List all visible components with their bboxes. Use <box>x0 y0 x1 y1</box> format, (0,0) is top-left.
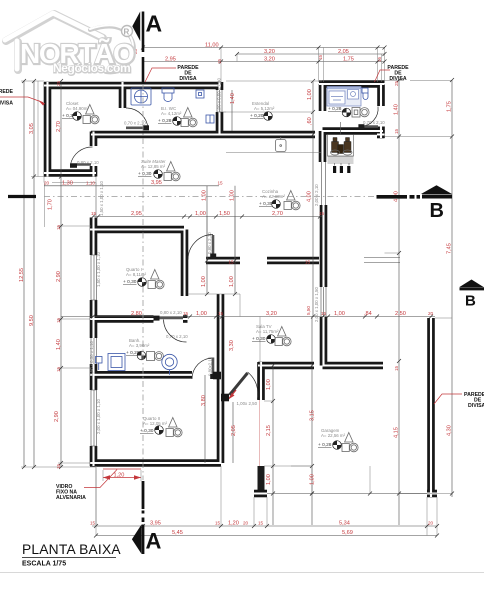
svg-text:2,15: 2,15 <box>266 425 272 436</box>
svg-text:3,95: 3,95 <box>150 521 161 527</box>
DIM_LAYER <box>19 43 453 537</box>
logo registered <box>122 26 133 37</box>
furniture cozinha <box>284 191 300 210</box>
dim ticks y316 <box>91 315 433 319</box>
churrasqueira jugs <box>332 138 352 154</box>
dim estendal tickline <box>226 81 322 112</box>
door arc closet <box>71 147 93 165</box>
svg-text:4,15: 4,15 <box>394 427 400 438</box>
svg-text:1,00: 1,00 <box>195 211 206 217</box>
dim vidro drop <box>96 470 141 525</box>
svg-text:B: B <box>430 200 444 222</box>
svg-text:+ 0,30: + 0,30 <box>138 171 152 177</box>
svg-text:0,70 x 2,10: 0,70 x 2,10 <box>363 120 385 125</box>
door arc biwc <box>126 108 148 130</box>
kitchen counter line <box>226 151 321 153</box>
level marker biwc <box>173 117 182 126</box>
wall band suite-top / estendal-bottom <box>91 131 315 139</box>
wall white cores <box>44 82 437 497</box>
svg-text:1,50 x 1,00 x 1,10: 1,50 x 1,00 x 1,10 <box>99 181 104 216</box>
svg-text:5,45: 5,45 <box>172 530 183 536</box>
leader vidro fixo <box>84 470 117 488</box>
dim row y216 suite/cozinha <box>94 216 323 218</box>
svg-text:A= 22,56 m²: A= 22,56 m² <box>321 433 346 438</box>
svg-text:B: B <box>465 293 476 310</box>
svg-text:2,90: 2,90 <box>54 411 60 422</box>
svg-text:1,40: 1,40 <box>56 339 62 350</box>
svg-text:15: 15 <box>229 260 235 265</box>
svg-text:1,00: 1,00 <box>334 311 345 317</box>
section line A dashed through plan <box>142 84 144 480</box>
wall quarto2 bottom exterior <box>90 459 221 467</box>
door leaf sala diagonal <box>230 373 248 395</box>
dim kitchen x313 lower <box>312 135 314 317</box>
arrow parede left <box>38 100 45 106</box>
section marker A bottom flag <box>132 525 142 554</box>
svg-text:1,00: 1,00 <box>202 190 208 201</box>
logo house outline <box>5 13 102 69</box>
wall sala/garagem top <box>258 362 314 370</box>
dim line top row3 <box>143 61 385 63</box>
svg-text:1,00: 1,00 <box>196 311 207 317</box>
svg-text:ESCALA 1/75: ESCALA 1/75 <box>22 561 66 568</box>
svg-text:DIVISA: DIVISA <box>179 76 197 82</box>
wall kitchen/sala left upper <box>319 131 327 162</box>
furniture biwc <box>181 108 197 127</box>
window quarto1 left <box>91 255 97 300</box>
svg-text:2,90: 2,90 <box>56 271 62 282</box>
fixture washer lavanderia <box>327 87 361 107</box>
wall top exterior (closet/bath block) <box>44 82 221 90</box>
level marker closet <box>73 112 82 121</box>
svg-text:PLANTA BAIXA: PLANTA BAIXA <box>22 542 121 557</box>
svg-text:0,80 x 2,10: 0,80 x 2,10 <box>160 310 182 315</box>
fixture basin banh2 <box>96 357 103 371</box>
leader parede right lower <box>434 394 462 404</box>
wall quarto1 bottom / banheiro top left part <box>90 315 154 323</box>
svg-text:15: 15 <box>56 366 61 372</box>
dim tick lines left <box>21 81 96 467</box>
fixture tank top lavanderia <box>327 87 361 89</box>
svg-text:+ 0,30: + 0,30 <box>140 428 154 434</box>
door leaf biwc <box>126 127 148 130</box>
dim vidro arrows <box>103 475 141 479</box>
wall laundry left <box>319 84 327 111</box>
wall garagem left pillar <box>258 466 265 497</box>
dim verticals y216 drop <box>96 62 235 261</box>
svg-text:15: 15 <box>394 128 399 134</box>
svg-text:+ 0,28: + 0,28 <box>328 106 342 112</box>
svg-text:1,50: 1,50 <box>219 211 230 217</box>
dim vidro 1,20 line <box>103 477 141 479</box>
window sala west wall <box>219 112 326 317</box>
suite wardrobe small <box>206 115 214 123</box>
dim corridor ticks <box>205 259 237 297</box>
svg-text:5,34: 5,34 <box>339 521 350 527</box>
dim estendal x232 <box>231 90 233 131</box>
section marker B2 roof <box>460 280 484 288</box>
dim quarto2 x205 <box>204 375 206 463</box>
fixture kitchen sink <box>276 137 287 152</box>
section marker A top flag <box>132 12 140 42</box>
dim ticks bottom <box>94 492 439 538</box>
svg-text:3,20: 3,20 <box>264 49 275 55</box>
svg-text:15: 15 <box>318 54 323 60</box>
dim line right col x399 <box>398 80 400 525</box>
door leaf closet <box>71 163 92 166</box>
svg-text:A= 11,75m²: A= 11,75m² <box>256 329 279 334</box>
svg-text:1,75: 1,75 <box>447 101 453 112</box>
level marker suite <box>154 170 163 179</box>
svg-text:7,45: 7,45 <box>447 243 453 254</box>
dim extenders top <box>143 43 385 84</box>
wall quarto1 left exterior upper <box>90 218 98 256</box>
dim estendal ticks <box>311 79 315 137</box>
svg-text:9,50: 9,50 <box>29 315 35 326</box>
dim line left col x34 <box>33 81 35 467</box>
svg-text:A= 12,85 m²: A= 12,85 m² <box>141 164 166 169</box>
wall band kitchen top <box>323 127 384 135</box>
svg-text:DIVISA: DIVISA <box>389 76 407 82</box>
svg-text:12,55: 12,55 <box>19 268 25 282</box>
dim garagem ticks <box>271 364 314 496</box>
svg-text:15: 15 <box>218 181 224 186</box>
dim estendal x313 <box>312 81 314 135</box>
door leaf lavanderia <box>360 125 378 128</box>
wall laundry right / exterior <box>377 84 385 138</box>
svg-text:1,00: 1,00 <box>230 190 236 201</box>
dim line top row1 <box>143 47 385 49</box>
svg-text:1,20: 1,20 <box>114 473 125 479</box>
svg-text:PAREDE: PAREDE <box>0 89 14 95</box>
svg-text:20: 20 <box>243 521 249 526</box>
svg-text:A= 5,12m²: A= 5,12m² <box>254 106 275 111</box>
svg-text:A= 8,11m²: A= 8,11m² <box>126 272 147 277</box>
wall closet/suite (lower part) <box>90 166 98 177</box>
svg-text:3,80: 3,80 <box>201 395 207 406</box>
svg-text:15: 15 <box>319 211 325 216</box>
svg-text:1,40: 1,40 <box>394 104 400 115</box>
level marker quarto1 <box>138 278 147 287</box>
level marker cozinha <box>272 200 281 209</box>
svg-text:15: 15 <box>91 211 97 216</box>
wall closet/suite (upper part) <box>90 132 98 147</box>
dim quarto2 x233 <box>232 402 234 463</box>
door arc quarto2 <box>192 358 213 379</box>
section line B left outside <box>8 195 36 198</box>
wall stub quarto2 door right <box>213 372 221 380</box>
svg-text:1,00: 1,00 <box>266 474 272 485</box>
wall bathroom right / estendal left <box>216 82 224 135</box>
fixture toilet biwc <box>162 88 174 101</box>
fixture sink banh2 <box>162 354 177 374</box>
svg-text:15: 15 <box>56 317 61 323</box>
svg-text:1,00x 2,50: 1,00x 2,50 <box>237 401 258 406</box>
svg-text:A: A <box>146 529 162 554</box>
svg-text:15: 15 <box>56 224 61 230</box>
svg-text:15: 15 <box>56 463 61 469</box>
svg-text:+ 0,28: + 0,28 <box>158 118 172 124</box>
wall sala right upper <box>257 362 265 400</box>
wall quarto2 bottom left stub at garage <box>254 490 267 498</box>
section marker B right roof <box>421 185 452 194</box>
wall garagem top right segment <box>323 362 384 370</box>
dim row bottom y494 <box>267 493 427 495</box>
red tick sala door <box>229 390 237 399</box>
svg-text:2,50: 2,50 <box>395 311 406 317</box>
dim corridor x235 <box>234 186 236 294</box>
svg-text:20: 20 <box>428 311 434 316</box>
wall closet/bathroom divider <box>119 82 127 108</box>
svg-text:+ 0,30: + 0,30 <box>252 336 266 342</box>
churrasqueira feet <box>333 166 350 173</box>
svg-text:20: 20 <box>428 521 434 526</box>
dim line left col x24 <box>23 81 25 467</box>
svg-text:1,00: 1,00 <box>307 89 313 100</box>
wall quarto1 right <box>181 230 189 297</box>
svg-text:15: 15 <box>218 311 224 316</box>
svg-text:2,80: 2,80 <box>131 311 142 317</box>
furniture quarto2 <box>166 418 182 437</box>
fixture shower banh2 <box>108 354 125 371</box>
svg-text:15: 15 <box>321 311 327 316</box>
svg-text:2,95: 2,95 <box>165 57 176 63</box>
svg-text:A= 4,12m²: A= 4,12m² <box>161 111 182 116</box>
wall sala left / quarto2 right <box>217 294 225 463</box>
svg-text:+ 0,30: + 0,30 <box>259 201 273 207</box>
window bancada patio <box>364 258 400 263</box>
svg-text:A= 12,05 m²: A= 12,05 m² <box>143 421 168 426</box>
svg-text:2,00 x 2,10: 2,00 x 2,10 <box>314 184 319 206</box>
door leaf banh2 <box>156 317 183 320</box>
fixture sink biwc <box>196 90 204 98</box>
fixture small wc lavanderia <box>362 88 368 100</box>
svg-text:1,70: 1,70 <box>48 199 54 210</box>
wall quarto1 left exterior lower <box>90 300 98 322</box>
window quarto2 left <box>91 390 97 446</box>
svg-text:2,70: 2,70 <box>56 121 62 132</box>
dim row y316 sala <box>61 316 435 318</box>
logo house shadow <box>6 14 103 70</box>
svg-text:+ 0,20: + 0,20 <box>250 113 264 119</box>
svg-text:,60: ,60 <box>307 117 313 125</box>
svg-text:Negócios.com: Negócios.com <box>53 61 130 75</box>
door arc sala <box>248 372 258 399</box>
svg-text:3,95: 3,95 <box>151 180 162 186</box>
svg-text:1,00: 1,00 <box>266 379 272 390</box>
svg-text:A= 04,90m²: A= 04,90m² <box>66 106 89 111</box>
svg-text:15: 15 <box>215 521 221 526</box>
svg-text:DIVISA: DIVISA <box>0 101 13 107</box>
svg-text:15: 15 <box>217 58 222 64</box>
wall closet bottom <box>44 169 96 177</box>
wall garagem bottom right stub <box>427 490 437 498</box>
furniture closet <box>83 105 99 124</box>
wall laundry top <box>319 80 385 88</box>
level marker garagem <box>333 441 342 450</box>
dim ticks right <box>397 78 454 496</box>
svg-text:1,00: 1,00 <box>310 474 316 485</box>
svg-text:2,05: 2,05 <box>231 425 237 436</box>
dim tick lines right <box>385 81 453 494</box>
logo watermark <box>5 13 135 75</box>
svg-text:1,20: 1,20 <box>228 521 239 527</box>
svg-text:1,50 x 1,00 x 1,10: 1,50 x 1,00 x 1,10 <box>96 252 101 287</box>
svg-text:1,10: 1,10 <box>86 181 95 186</box>
leader parede top mid <box>145 68 176 82</box>
churrasqueira jug bases <box>331 150 353 155</box>
wall quarto2 left exterior lower <box>90 446 98 466</box>
svg-text:15: 15 <box>183 311 189 316</box>
windows (thin double lines in wall gaps) <box>91 90 400 525</box>
svg-text:3,20: 3,20 <box>266 311 277 317</box>
svg-text:DIVISA: DIVISA <box>468 403 484 409</box>
logo swoosh <box>90 26 134 72</box>
svg-text:1,40: 1,40 <box>230 93 236 104</box>
level marker lavanderia <box>342 108 351 117</box>
churrasqueira frame <box>328 122 354 166</box>
dim line right col x452 <box>451 80 453 497</box>
dim row bottom y525 <box>92 525 437 527</box>
level marker banh <box>137 351 146 360</box>
door arc quarto1 <box>188 235 213 260</box>
dim ticks top <box>141 46 387 64</box>
wall corridor top stub <box>206 257 240 265</box>
open edge below A wall <box>95 466 97 525</box>
furniture banh <box>147 352 164 361</box>
title underline <box>22 557 116 559</box>
vidro red underline <box>103 468 141 470</box>
wall cozinha/patio stub <box>267 257 319 265</box>
dim line top row2 <box>237 53 385 55</box>
dim garagem x273 <box>272 366 274 526</box>
level marker estendal <box>264 112 273 121</box>
wall quarto1 top <box>90 226 184 234</box>
wall quarto2 left exterior upper <box>90 322 98 390</box>
page separator line <box>0 572 484 574</box>
window biwc right wall <box>217 90 222 112</box>
svg-text:A: A <box>146 11 163 37</box>
svg-text:,84: ,84 <box>364 311 372 317</box>
svg-text:5,50: 5,50 <box>306 306 311 315</box>
dim row under closet y185 <box>44 185 219 187</box>
svg-text:4,30: 4,30 <box>447 425 453 436</box>
dim garagem ticklines <box>240 294 312 466</box>
leader parede top right <box>375 70 391 82</box>
dim corridor x207 <box>206 186 208 294</box>
section marker B base <box>422 195 452 199</box>
svg-text:3,15: 3,15 <box>310 410 316 421</box>
svg-text:0,60 x 0,50 x 1,10: 0,60 x 0,50 x 1,10 <box>89 341 94 376</box>
svg-text:1,75: 1,75 <box>343 57 354 63</box>
dim ticks y216 <box>91 215 322 219</box>
svg-text:2,00 x 1,00 x 1,10: 2,00 x 1,00 x 1,10 <box>96 399 101 434</box>
wall left exterior <box>44 82 52 177</box>
svg-text:15: 15 <box>90 521 96 526</box>
wall garagem right (parede divisa) <box>427 318 435 497</box>
furniture suite <box>164 162 180 181</box>
svg-text:15: 15 <box>305 260 311 265</box>
furniture sala <box>275 327 291 346</box>
wall banheiro top right stub <box>183 315 188 323</box>
dim line left col x61 <box>60 81 62 467</box>
svg-text:3,30: 3,30 <box>229 340 235 351</box>
open edge garagem left <box>259 400 261 466</box>
dim bottom extenders <box>96 466 437 536</box>
svg-text:R: R <box>124 28 130 37</box>
dim ticks left <box>22 79 63 469</box>
svg-text:2,05: 2,05 <box>338 49 349 55</box>
door arc banh2 <box>164 320 187 343</box>
svg-text:5,69: 5,69 <box>342 530 353 536</box>
door leaf quarto2 <box>212 358 215 379</box>
section marker B2 base <box>460 287 484 290</box>
svg-text:2,00 x 1,00 x 1,50: 2,00 x 1,00 x 1,50 <box>314 287 319 322</box>
section line B dashed through plan <box>44 196 378 198</box>
section line A top <box>142 12 145 85</box>
leader parede left <box>0 97 43 103</box>
window banheiro left <box>91 338 97 364</box>
svg-text:2,70: 2,70 <box>272 211 283 217</box>
svg-text:3,20: 3,20 <box>264 57 275 63</box>
level marker quarto2 <box>155 426 164 435</box>
section line B right outside <box>377 195 421 199</box>
svg-text:ALVENARIA: ALVENARIA <box>56 495 86 501</box>
wall stub sala door left <box>221 394 229 402</box>
svg-text:1,00 x 0,50 x 1,80: 1,00 x 0,50 x 1,80 <box>217 78 222 113</box>
svg-text:15: 15 <box>394 365 399 371</box>
door arc lavanderia <box>360 107 378 127</box>
section line A bottom <box>142 481 145 554</box>
dim corridor tickline <box>188 293 240 295</box>
dim row bottom y532 <box>96 535 437 537</box>
furniture quarto1 <box>148 270 164 289</box>
wall laundry bottom right segment <box>377 131 385 139</box>
door leaf quarto1 <box>212 235 215 258</box>
fixture shower biwc <box>131 88 151 105</box>
svg-text:+ 0,30: + 0,30 <box>123 279 137 285</box>
svg-text:1,00: 1,00 <box>201 276 207 287</box>
svg-text:25: 25 <box>56 80 61 86</box>
svg-text:11,00: 11,00 <box>205 43 219 49</box>
wall banheiro bottom <box>90 371 192 379</box>
svg-text:1,00: 1,00 <box>229 276 235 287</box>
wall kitchen/sala left lower <box>320 317 328 366</box>
svg-text:15: 15 <box>258 521 264 526</box>
svg-text:1,30: 1,30 <box>62 181 73 187</box>
dim garagem x312 <box>311 317 313 526</box>
svg-text:+ 0,28: + 0,28 <box>318 442 332 448</box>
furniture lavanderia <box>352 108 369 118</box>
svg-text:2,95: 2,95 <box>131 211 142 217</box>
svg-text:20: 20 <box>44 181 50 186</box>
svg-text:3,05: 3,05 <box>29 123 35 134</box>
wall kitchen/sala left mid <box>320 205 328 287</box>
svg-text:15: 15 <box>377 56 382 62</box>
svg-text:A= 3,90m²: A= 3,90m² <box>129 343 150 348</box>
dim line left col x38 <box>37 81 39 177</box>
furniture garagem <box>342 433 358 452</box>
level marker sala <box>267 335 276 344</box>
